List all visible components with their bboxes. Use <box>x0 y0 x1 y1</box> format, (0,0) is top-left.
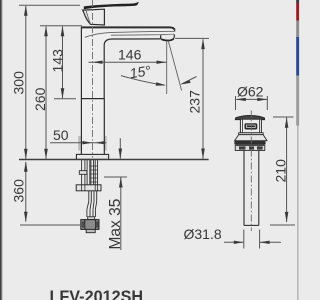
faucet: handle lever <box>84 2 139 10</box>
dimension Ø31.8 arrows <box>224 241 243 243</box>
drain: cap neck <box>240 119 261 133</box>
svg-text:15°: 15° <box>128 62 152 81</box>
wire: 143 bottom extension <box>54 98 76 100</box>
faucet: under-deck shank tubes <box>82 160 98 191</box>
wire: 210 bottom extension <box>270 224 295 226</box>
dimension 50 line <box>50 142 107 144</box>
wire: 237 top extension <box>175 37 209 39</box>
wire: 360 bottom extension (hose end) <box>20 224 85 226</box>
svg-text:237: 237 <box>187 90 203 114</box>
dimension 146 line <box>89 61 167 63</box>
wire: top extension line (faucet top reference) <box>19 4 80 6</box>
angle leader left with arrow <box>121 76 165 86</box>
drain: tailpipe <box>243 151 245 226</box>
faucet: left body edge <box>80 27 82 154</box>
drain: centerline <box>250 111 252 232</box>
drain: gasket band <box>234 141 265 145</box>
svg-text:Ø62: Ø62 <box>237 84 264 100</box>
drain: slotted ring <box>235 146 265 151</box>
faucet: collar on lift rod <box>79 171 87 175</box>
angle leader right with arrow <box>182 77 197 84</box>
svg-text:50: 50 <box>53 127 69 143</box>
faucet: spout top edge <box>81 27 174 29</box>
faucet: hex connector <box>81 220 99 230</box>
faucet: supply hose upper <box>87 191 97 217</box>
svg-text:360: 360 <box>11 179 27 203</box>
faucet: centerline <box>92 0 94 158</box>
wire: Max35 lower extension <box>104 176 127 178</box>
dimension Max 35 top arrow <box>119 138 121 158</box>
svg-text:Max 35: Max 35 <box>107 199 124 250</box>
faucet: handle base <box>83 9 105 25</box>
faucet: mounting nut bar <box>76 185 101 191</box>
faucet: spout nose right edge <box>174 29 176 31</box>
faucet: body shade band left <box>78 136 80 151</box>
svg-text:300: 300 <box>11 71 27 95</box>
dimension Max 35 bottom arrow/leader <box>120 177 122 250</box>
dimension 260 line <box>45 27 47 159</box>
faucet: body fill <box>81 26 174 154</box>
svg-text:260: 260 <box>32 87 48 111</box>
faucet: base plate <box>76 154 108 159</box>
right edge color strip <box>296 0 299 3</box>
faucet: shank thread ticks <box>90 166 98 182</box>
wire: outlet vertical reference line <box>166 41 168 94</box>
svg-text:146: 146 <box>118 47 142 63</box>
drain: step ring <box>239 133 264 135</box>
faucet: body joint line <box>81 98 104 100</box>
wire: 210 top extension <box>273 116 294 118</box>
faucet: right body edge lower <box>103 98 105 154</box>
dimension 360 line <box>25 162 27 222</box>
faucet: spout inner top line <box>85 31 175 37</box>
drain: Ø31.8 extension lines <box>243 230 245 249</box>
wire: spout-top extension line <box>40 25 82 27</box>
drain: cap top disc <box>235 116 264 120</box>
dimension 143 line <box>62 27 64 99</box>
faucet: aerator nub <box>161 35 175 41</box>
faucet: hose kink <box>87 202 89 210</box>
faucet: connector tail <box>86 229 95 232</box>
faucet: hose lower <box>86 209 88 217</box>
svg-text:143: 143 <box>50 49 66 73</box>
drain: INAX label plate <box>245 123 258 129</box>
drain: Ø62 dimension <box>236 98 267 100</box>
drain: Ø62 extension lines <box>235 96 237 110</box>
faucet: spout lower tip line <box>111 34 174 35</box>
dimension 237 line <box>202 39 204 158</box>
faucet: spout underside <box>104 39 160 99</box>
faucet: hose collar <box>88 217 95 220</box>
dimension 210 line <box>286 118 288 222</box>
faucet: body shade band right <box>104 136 107 151</box>
svg-text:LFV-2012SH: LFV-2012SH <box>50 288 144 300</box>
drain: flare <box>235 135 267 141</box>
wire: deck line <box>19 159 209 161</box>
svg-text:210: 210 <box>273 159 289 183</box>
wire: water stream 15 deg line <box>168 41 181 91</box>
svg-text:Ø31.8: Ø31.8 <box>184 226 222 242</box>
dimension 300 line <box>25 6 27 159</box>
